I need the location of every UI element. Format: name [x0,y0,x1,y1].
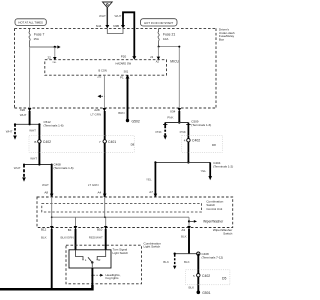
svg-text:Fog lights: Fog lights [106,276,120,280]
svg-text:LT GRN: LT GRN [91,113,102,117]
svg-text:D8: D8 [212,143,216,147]
svg-text:BRN: BRN [118,111,124,115]
svg-text:YEL: YEL [201,169,207,173]
svg-text:A8: A8 [44,190,48,194]
svg-text:(Terminals 1-2): (Terminals 1-2) [213,165,233,169]
svg-text:RED/WHT: RED/WHT [89,235,103,239]
svg-text:BLK: BLK [181,235,187,239]
svg-text:C401: C401 [108,140,116,144]
svg-text:D5: D5 [222,276,226,280]
svg-text:LT GRN: LT GRN [88,183,99,187]
svg-text:WHT: WHT [29,129,36,133]
svg-text:HAZARD SW: HAZARD SW [116,61,132,65]
svg-text:Light Switch: Light Switch [144,245,161,249]
svg-text:P20: P20 [121,54,127,58]
svg-text:Switch: Switch [223,231,232,235]
svg-text:S01: S01 [124,70,129,74]
svg-text:WHT: WHT [42,183,49,187]
svg-text:(Terminals 1-6): (Terminals 1-6) [44,124,64,128]
svg-text:BLK: BLK [41,236,47,240]
svg-text:A4: A4 [98,190,102,194]
svg-text:B: B [34,140,36,144]
svg-text:Fuse 7: Fuse 7 [34,33,44,37]
svg-text:B12: B12 [41,227,47,231]
svg-text:WHT: WHT [6,130,13,134]
svg-text:Light Switch: Light Switch [113,251,129,255]
svg-text:WHT: WHT [14,166,21,170]
svg-text:A2: A2 [156,60,160,64]
svg-text:BLK/GRN: BLK/GRN [61,235,74,239]
svg-text:WHT: WHT [30,157,37,161]
svg-text:A28: A28 [94,108,100,112]
svg-text:C402: C402 [43,140,51,144]
svg-text:BLK: BLK [163,260,169,264]
svg-text:22: 22 [48,55,52,59]
svg-text:(Terminals 1-6): (Terminals 1-6) [191,123,211,127]
svg-text:2G: 2G [97,75,102,79]
svg-text:G501: G501 [202,291,210,295]
svg-text:PNK: PNK [167,116,173,120]
svg-text:15A: 15A [34,37,39,41]
svg-text:B10: B10 [97,228,103,232]
svg-text:WHT: WHT [20,113,27,117]
svg-text:HOT AT ALL TIMES: HOT AT ALL TIMES [18,21,43,25]
svg-text:B4: B4 [68,228,72,232]
svg-text:Box: Box [219,37,225,41]
svg-text:(Terminals 7-12): (Terminals 7-12) [202,256,224,260]
svg-text:N44: N44 [96,24,102,28]
svg-text:BLK: BLK [184,260,190,264]
svg-text:N3B: N3B [113,24,119,28]
svg-text:X34: X34 [170,109,176,113]
svg-text:P1: P1 [120,75,124,79]
svg-text:Control Unit: Control Unit [206,207,222,211]
svg-text:Wiper/Washer: Wiper/Washer [203,220,224,224]
svg-text:10A: 10A [163,37,168,41]
svg-text:X20: X20 [20,108,26,112]
svg-text:C402: C402 [192,139,200,143]
svg-text:D8: D8 [131,142,135,146]
svg-text:BLK: BLK [189,285,195,289]
svg-text:Fuse 21: Fuse 21 [163,33,175,37]
svg-text:PNK: PNK [180,130,186,134]
svg-text:C402: C402 [202,274,210,278]
svg-text:YEL: YEL [146,177,152,181]
svg-text:A3: A3 [181,228,185,232]
svg-text:G502: G502 [132,119,140,123]
svg-text:B CON: B CON [99,69,107,73]
svg-text:A7: A7 [149,190,153,194]
svg-text:WHT: WHT [99,14,106,18]
svg-text:HOT IN ON OR START: HOT IN ON OR START [144,21,173,25]
svg-text:PNK: PNK [156,130,162,134]
svg-text:MICU: MICU [170,60,179,64]
svg-text:(Terminals 1-6): (Terminals 1-6) [54,166,74,170]
svg-text:WHT: WHT [115,14,122,18]
